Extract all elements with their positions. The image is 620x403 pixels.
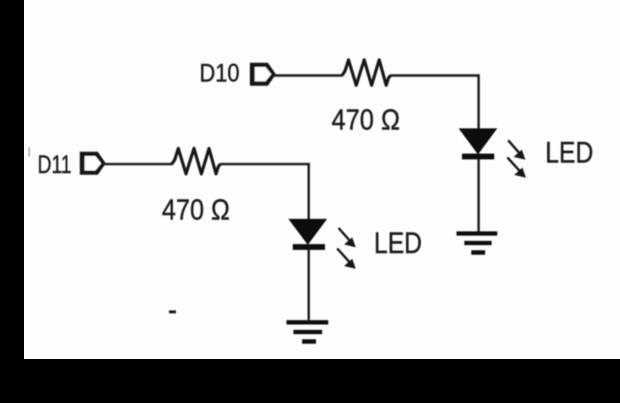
pin connector D11 xyxy=(80,152,106,175)
resistor R2 zigzag xyxy=(172,148,221,174)
svg-text:D11: D11 xyxy=(38,151,72,179)
svg-text:470 Ω: 470 Ω xyxy=(332,104,401,136)
wire LED D2 to ground xyxy=(308,250,310,321)
LED D2 cathode bar xyxy=(293,244,325,250)
wire pin D11 to resistor R2 xyxy=(104,163,173,165)
LED D2 emission arrow 1 xyxy=(339,228,355,247)
stray dash mark xyxy=(169,310,176,313)
svg-text:D10: D10 xyxy=(200,59,240,87)
LED D2 triangle (anode) xyxy=(289,219,326,244)
LED D1 cathode bar xyxy=(462,154,494,160)
svg-text:LED: LED xyxy=(374,227,422,260)
pin connector D10 xyxy=(250,63,276,86)
ground symbol (top circuit) xyxy=(457,234,498,253)
wire resistor R2 to corner and down to LED D2 xyxy=(220,164,309,220)
wire LED D1 to ground xyxy=(477,159,479,232)
bottom black border bar xyxy=(0,359,620,403)
LED D2 emission arrow 2 xyxy=(337,249,355,269)
svg-text:LED: LED xyxy=(545,137,593,170)
faint scan tick left of D11 xyxy=(28,147,30,157)
svg-text:470 Ω: 470 Ω xyxy=(162,194,230,226)
wire resistor R1 to corner and down to LED D1 xyxy=(390,76,479,131)
wire pin D10 to resistor R1 xyxy=(272,74,343,76)
LED D1 emission arrow 1 xyxy=(508,140,524,159)
LED D1 emission arrow 2 xyxy=(507,157,525,177)
ground symbol (bottom circuit) xyxy=(287,322,329,341)
resistor R1 zigzag xyxy=(342,60,391,86)
LED D1 triangle (anode) xyxy=(460,129,497,154)
left black border column xyxy=(0,0,24,403)
